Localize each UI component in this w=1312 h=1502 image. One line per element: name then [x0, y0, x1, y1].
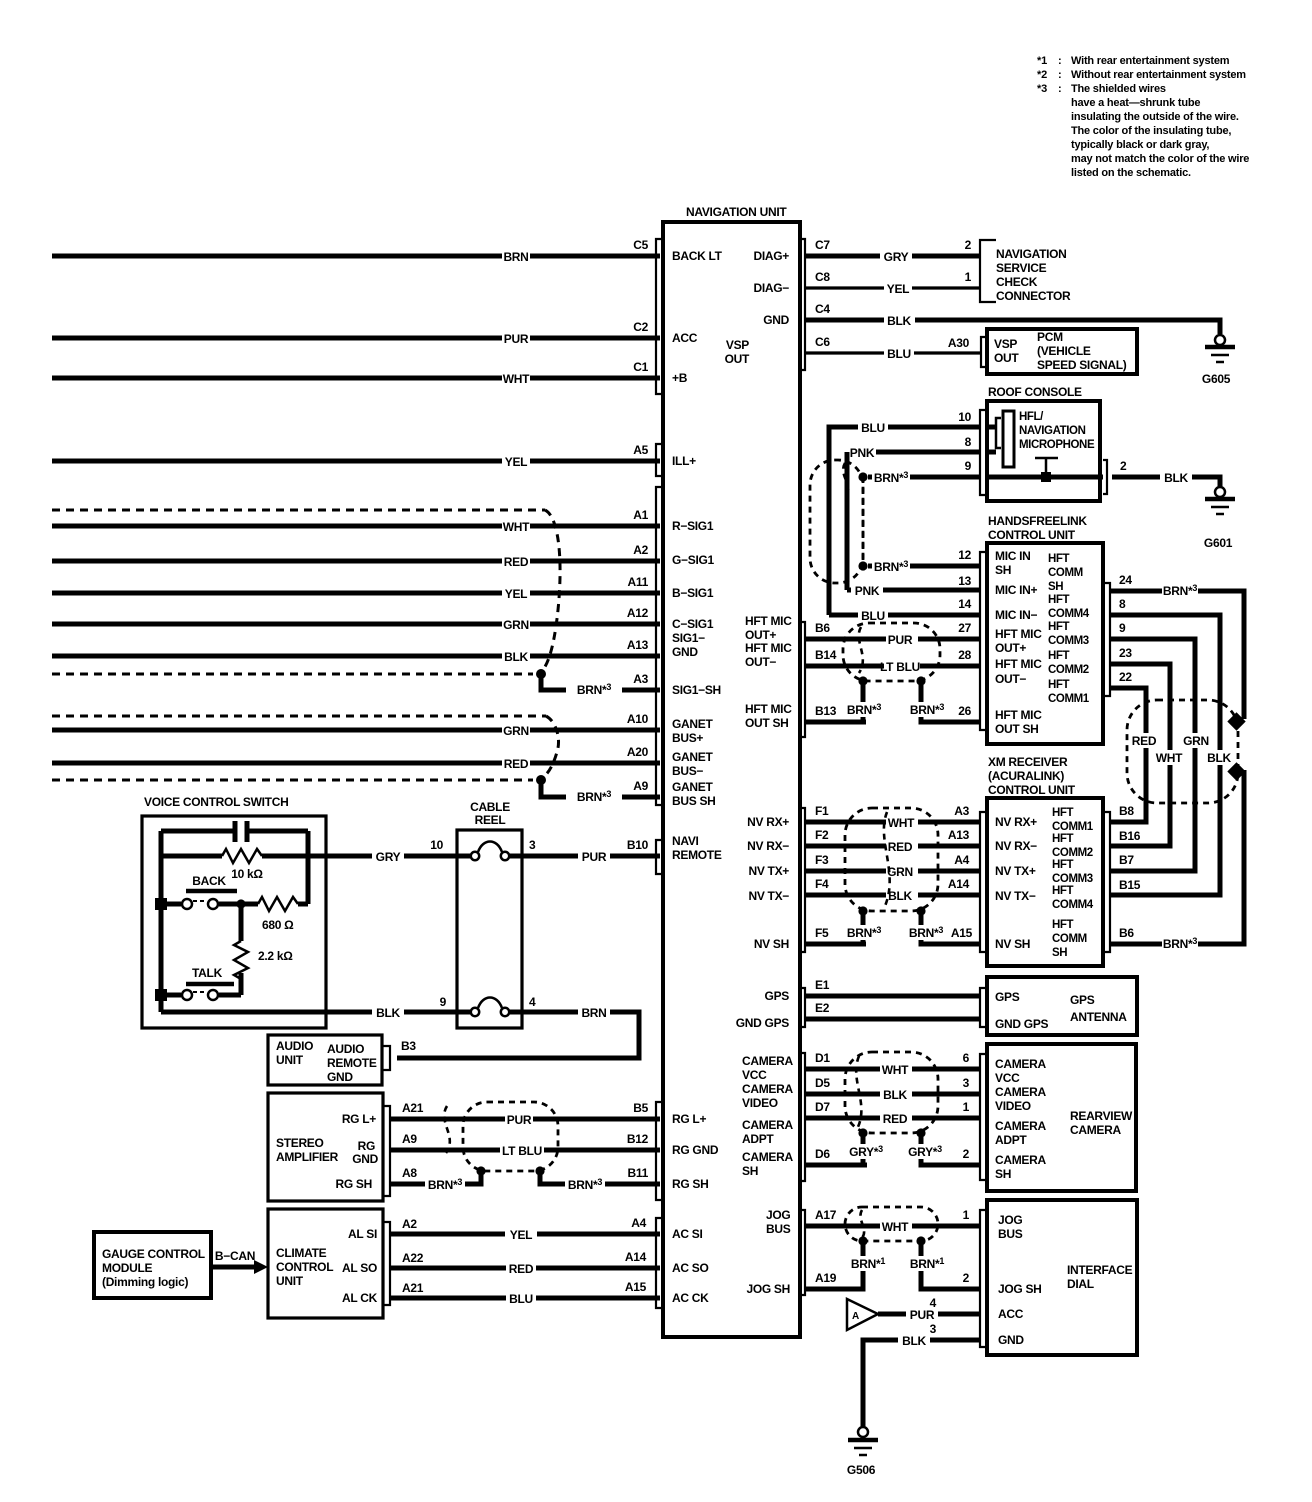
svg-text:BRN*3: BRN*3: [1163, 936, 1197, 951]
svg-text:B15: B15: [1119, 878, 1141, 892]
svg-text:E1: E1: [815, 978, 830, 992]
svg-text:BRN*3: BRN*3: [847, 702, 881, 717]
svg-text:B16: B16: [1119, 829, 1141, 843]
svg-text:CAMERA: CAMERA: [742, 1118, 793, 1132]
svg-text:A3: A3: [633, 672, 648, 686]
svg-text:A19: A19: [815, 1271, 837, 1285]
svg-text:BUS SH: BUS SH: [672, 794, 716, 808]
svg-text:PUR: PUR: [888, 633, 913, 647]
svg-text:CABLE: CABLE: [470, 800, 510, 814]
svg-text:MODULE: MODULE: [102, 1261, 152, 1275]
svg-text:F3: F3: [815, 853, 829, 867]
svg-text:1: 1: [963, 1208, 970, 1222]
svg-text:SH: SH: [742, 1164, 758, 1178]
svg-text:D6: D6: [815, 1147, 830, 1161]
svg-text:BRN*3: BRN*3: [874, 559, 908, 574]
svg-text:D5: D5: [815, 1076, 830, 1090]
svg-text:BRN*1: BRN*1: [910, 1256, 944, 1271]
svg-text:BLK: BLK: [888, 889, 912, 903]
svg-text:GND: GND: [327, 1070, 353, 1084]
svg-text:BLU: BLU: [887, 347, 911, 361]
svg-text:VIDEO: VIDEO: [995, 1099, 1031, 1113]
svg-text:AL SO: AL SO: [342, 1261, 377, 1275]
svg-text:RG: RG: [358, 1139, 375, 1153]
svg-text:BLK: BLK: [902, 1334, 926, 1348]
svg-text:B5: B5: [633, 1101, 648, 1115]
svg-text:PUR: PUR: [910, 1308, 935, 1322]
svg-text:B6: B6: [815, 621, 830, 635]
svg-text:INTERFACE: INTERFACE: [1067, 1263, 1133, 1277]
svg-text:SH: SH: [1052, 947, 1067, 959]
svg-text:GND: GND: [672, 645, 698, 659]
svg-text:B6: B6: [1119, 926, 1134, 940]
svg-text:HFT MIC: HFT MIC: [745, 614, 792, 628]
svg-text:RG SH: RG SH: [335, 1177, 372, 1191]
svg-text:RG L+: RG L+: [672, 1112, 706, 1126]
svg-text:CAMERA: CAMERA: [995, 1057, 1046, 1071]
svg-text:ACC: ACC: [672, 331, 698, 345]
svg-text:R−SIG1: R−SIG1: [672, 519, 714, 533]
svg-text:SIG1−SH: SIG1−SH: [672, 683, 721, 697]
svg-text:E2: E2: [815, 1001, 830, 1015]
svg-text:CONTROL UNIT: CONTROL UNIT: [988, 528, 1076, 542]
svg-text:BACK: BACK: [192, 874, 226, 888]
svg-text:GRN: GRN: [887, 865, 913, 879]
svg-text:BRN: BRN: [581, 1006, 606, 1020]
svg-text:OUT+: OUT+: [745, 628, 776, 642]
svg-text:NV SH: NV SH: [995, 937, 1030, 951]
svg-text:HFT MIC: HFT MIC: [745, 702, 792, 716]
svg-text:OUT SH: OUT SH: [745, 716, 789, 730]
svg-text:CAMERA: CAMERA: [995, 1119, 1046, 1133]
svg-text:GAUGE CONTROL: GAUGE CONTROL: [102, 1247, 205, 1261]
svg-text:F5: F5: [815, 926, 829, 940]
svg-text:With rear entertainment system: With rear entertainment system: [1071, 55, 1230, 67]
svg-text:10 kΩ: 10 kΩ: [231, 867, 263, 881]
svg-text:have a heat—shrunk tube: have a heat—shrunk tube: [1071, 97, 1200, 109]
svg-text:HFT MIC: HFT MIC: [995, 708, 1042, 722]
svg-text:*2: *2: [1037, 69, 1047, 81]
svg-text:HFL/: HFL/: [1019, 411, 1044, 423]
svg-text:RG SH: RG SH: [672, 1177, 709, 1191]
svg-text::: :: [1058, 83, 1061, 95]
svg-text:A: A: [852, 1311, 859, 1322]
svg-text:UNIT: UNIT: [276, 1053, 304, 1067]
svg-text:XM RECEIVER: XM RECEIVER: [988, 755, 1068, 769]
svg-text:LT BLU: LT BLU: [502, 1144, 542, 1158]
svg-text:VCC: VCC: [742, 1068, 767, 1082]
svg-text:14: 14: [958, 597, 971, 611]
svg-text:CONTROL: CONTROL: [276, 1260, 333, 1274]
svg-text:AC SI: AC SI: [672, 1227, 703, 1241]
svg-text:A12: A12: [627, 606, 649, 620]
svg-text:YEL: YEL: [505, 587, 527, 601]
svg-text:NV RX+: NV RX+: [995, 815, 1037, 829]
svg-text:A9: A9: [402, 1132, 417, 1146]
svg-text:OUT−: OUT−: [995, 672, 1026, 686]
svg-text:NV RX−: NV RX−: [747, 839, 789, 853]
svg-text:C7: C7: [815, 238, 830, 252]
svg-text:B7: B7: [1119, 853, 1134, 867]
svg-text:SPEED SIGNAL): SPEED SIGNAL): [1037, 358, 1127, 372]
svg-text:OUT+: OUT+: [995, 641, 1026, 655]
svg-text:G605: G605: [1202, 372, 1231, 386]
svg-text:10: 10: [430, 838, 443, 852]
svg-text:LT BLU: LT BLU: [880, 660, 920, 674]
svg-text:RED: RED: [1132, 734, 1157, 748]
svg-text:AMPLIFIER: AMPLIFIER: [276, 1150, 339, 1164]
svg-text:JOG: JOG: [766, 1208, 790, 1222]
svg-text:23: 23: [1119, 646, 1132, 660]
svg-text:A9: A9: [633, 779, 648, 793]
svg-text:COMM1: COMM1: [1052, 821, 1094, 833]
svg-text:A1: A1: [633, 508, 648, 522]
svg-text:RED: RED: [883, 1112, 908, 1126]
svg-text:9: 9: [1119, 621, 1126, 635]
svg-text:GPS: GPS: [765, 989, 790, 1003]
svg-text:+B: +B: [672, 371, 688, 385]
svg-text:MIC IN+: MIC IN+: [995, 583, 1038, 597]
svg-text:HFT MIC: HFT MIC: [745, 641, 792, 655]
svg-text:D7: D7: [815, 1100, 830, 1114]
svg-text:typically black or dark gray,: typically black or dark gray,: [1071, 139, 1209, 151]
svg-text:6: 6: [963, 1051, 970, 1065]
svg-text:B−SIG1: B−SIG1: [672, 586, 714, 600]
svg-text:VOICE CONTROL SWITCH: VOICE CONTROL SWITCH: [144, 795, 288, 809]
svg-text:A13: A13: [948, 828, 970, 842]
svg-text:A3: A3: [954, 804, 969, 818]
svg-text:A4: A4: [954, 853, 969, 867]
svg-text:GRY: GRY: [884, 250, 909, 264]
svg-text:RED: RED: [509, 1262, 534, 1276]
svg-text:RG GND: RG GND: [672, 1143, 719, 1157]
svg-text:The color of the insulating tu: The color of the insulating tube,: [1071, 125, 1231, 137]
svg-text:B11: B11: [628, 1166, 649, 1180]
svg-text:AUDIO: AUDIO: [276, 1039, 313, 1053]
svg-text:may not match the color of the: may not match the color of the wire: [1071, 153, 1249, 165]
svg-text:NAVIGATION UNIT: NAVIGATION UNIT: [686, 205, 787, 219]
svg-text:CAMERA: CAMERA: [742, 1150, 793, 1164]
svg-text:3: 3: [529, 838, 536, 852]
svg-text:2: 2: [1120, 459, 1127, 473]
svg-text:YEL: YEL: [505, 455, 527, 469]
svg-text:HFT: HFT: [1052, 859, 1074, 871]
svg-text:HFT: HFT: [1048, 553, 1070, 565]
svg-text:NAVI: NAVI: [672, 834, 699, 848]
svg-text:BLK: BLK: [376, 1006, 400, 1020]
svg-text:3: 3: [930, 1322, 937, 1336]
svg-text:BRN*3: BRN*3: [847, 925, 881, 940]
svg-text:PNK: PNK: [850, 446, 875, 460]
svg-text:C8: C8: [815, 270, 830, 284]
svg-text:WHT: WHT: [888, 816, 915, 830]
svg-text:ANTENNA: ANTENNA: [1070, 1010, 1127, 1024]
svg-text:G506: G506: [847, 1463, 876, 1477]
svg-text:BLU: BLU: [509, 1292, 533, 1306]
svg-text:MIC IN: MIC IN: [995, 549, 1031, 563]
svg-text:RED: RED: [888, 840, 913, 854]
svg-text:A2: A2: [402, 1217, 417, 1231]
svg-text:BUS: BUS: [766, 1222, 791, 1236]
svg-text:A14: A14: [948, 877, 970, 891]
svg-text:TALK: TALK: [192, 966, 223, 980]
svg-text:C4: C4: [815, 302, 830, 316]
svg-text:1: 1: [963, 1100, 970, 1114]
svg-text:Without rear entertainment sys: Without rear entertainment system: [1071, 69, 1246, 81]
svg-text:HFT: HFT: [1048, 621, 1070, 633]
svg-text:COMM1: COMM1: [1048, 693, 1090, 705]
svg-text:B3: B3: [401, 1039, 416, 1053]
svg-text:NV RX−: NV RX−: [995, 839, 1037, 853]
svg-text:GND: GND: [998, 1333, 1024, 1347]
svg-text:2: 2: [963, 1271, 970, 1285]
svg-text:A11: A11: [628, 575, 649, 589]
svg-text:CHECK: CHECK: [996, 275, 1038, 289]
svg-text:NAVIGATION: NAVIGATION: [1019, 425, 1086, 437]
svg-text:WHT: WHT: [503, 520, 530, 534]
svg-text::: :: [1058, 55, 1061, 67]
svg-text:(Dimming logic): (Dimming logic): [102, 1275, 188, 1289]
svg-text:YEL: YEL: [887, 282, 909, 296]
svg-text:PUR: PUR: [582, 850, 607, 864]
svg-text:REMOTE: REMOTE: [672, 848, 722, 862]
svg-text:(VEHICLE: (VEHICLE: [1037, 344, 1091, 358]
svg-text:*3: *3: [1037, 83, 1047, 95]
svg-text:VSP: VSP: [726, 338, 749, 352]
svg-text:B10: B10: [627, 838, 649, 852]
svg-text:A10: A10: [627, 712, 649, 726]
svg-text:ADPT: ADPT: [742, 1132, 774, 1146]
svg-text:D1: D1: [815, 1051, 830, 1065]
svg-text:WHT: WHT: [882, 1063, 909, 1077]
svg-text:BUS: BUS: [998, 1227, 1023, 1241]
svg-text:REEL: REEL: [475, 813, 506, 827]
svg-text:A14: A14: [625, 1250, 647, 1264]
svg-text:MIC IN−: MIC IN−: [995, 608, 1038, 622]
svg-text:B12: B12: [627, 1132, 649, 1146]
svg-text:HFT: HFT: [1048, 594, 1070, 606]
svg-text:A21: A21: [402, 1101, 424, 1115]
svg-text:B13: B13: [815, 704, 837, 718]
svg-text:CONTROL UNIT: CONTROL UNIT: [988, 783, 1076, 797]
svg-text:2: 2: [963, 1147, 970, 1161]
svg-text:BRN*3: BRN*3: [428, 1177, 462, 1192]
svg-text:B−CAN: B−CAN: [215, 1249, 255, 1263]
svg-text:CAMERA: CAMERA: [995, 1085, 1046, 1099]
svg-text:26: 26: [958, 704, 971, 718]
svg-text:A15: A15: [951, 926, 973, 940]
svg-text:COMM2: COMM2: [1052, 847, 1093, 859]
svg-text:RED: RED: [504, 555, 529, 569]
svg-text:SH: SH: [995, 1167, 1011, 1181]
svg-text:A20: A20: [627, 745, 649, 759]
svg-text:GPS: GPS: [995, 990, 1020, 1004]
svg-text:OUT SH: OUT SH: [995, 722, 1039, 736]
svg-text:BRN*3: BRN*3: [874, 470, 908, 485]
svg-text:VIDEO: VIDEO: [742, 1096, 778, 1110]
svg-text:ACC: ACC: [998, 1307, 1024, 1321]
svg-text:CONNECTOR: CONNECTOR: [996, 289, 1071, 303]
svg-text:BLU: BLU: [861, 609, 885, 623]
svg-text:COMM3: COMM3: [1052, 873, 1093, 885]
svg-text:BLK: BLK: [504, 650, 528, 664]
svg-text:AC SO: AC SO: [672, 1261, 709, 1275]
svg-text:BUS+: BUS+: [672, 731, 703, 745]
svg-text:RED: RED: [504, 757, 529, 771]
svg-text:2.2 kΩ: 2.2 kΩ: [258, 949, 293, 963]
svg-text:AL CK: AL CK: [342, 1291, 378, 1305]
svg-text:BLK: BLK: [1164, 471, 1188, 485]
svg-text:8: 8: [965, 435, 972, 449]
svg-text:A5: A5: [633, 443, 648, 457]
svg-text:A13: A13: [627, 638, 649, 652]
svg-text:ROOF CONSOLE: ROOF CONSOLE: [988, 385, 1082, 399]
svg-text:A4: A4: [631, 1216, 646, 1230]
svg-text:COMM4: COMM4: [1048, 608, 1090, 620]
svg-text:BLK: BLK: [883, 1088, 907, 1102]
svg-text:ILL+: ILL+: [672, 454, 696, 468]
svg-text:BACK LT: BACK LT: [672, 249, 723, 263]
svg-text:BRN: BRN: [503, 250, 528, 264]
svg-text:DIAG−: DIAG−: [753, 281, 789, 295]
svg-text:C1: C1: [633, 360, 648, 374]
svg-text:HFT: HFT: [1052, 807, 1074, 819]
svg-text:C6: C6: [815, 335, 830, 349]
svg-text:HFT: HFT: [1052, 833, 1074, 845]
svg-text:F1: F1: [815, 804, 829, 818]
svg-text:A17: A17: [815, 1208, 837, 1222]
svg-text:The shielded wires: The shielded wires: [1071, 83, 1166, 95]
svg-text:OUT−: OUT−: [745, 655, 776, 669]
svg-text:PNK: PNK: [855, 584, 880, 598]
svg-text:AC CK: AC CK: [672, 1291, 709, 1305]
svg-text:PUR: PUR: [507, 1113, 532, 1127]
svg-text:listed on the schematic.: listed on the schematic.: [1071, 167, 1191, 179]
svg-text:22: 22: [1119, 670, 1132, 684]
svg-text:B14: B14: [815, 648, 837, 662]
svg-text:BRN*3: BRN*3: [577, 789, 611, 804]
svg-text:BRN*3: BRN*3: [909, 925, 943, 940]
svg-text:NV TX−: NV TX−: [748, 889, 789, 903]
svg-text:COMM: COMM: [1052, 933, 1087, 945]
svg-text:(ACURALINK): (ACURALINK): [988, 769, 1064, 783]
svg-text:WHT: WHT: [503, 372, 530, 386]
svg-text:G601: G601: [1204, 536, 1233, 550]
svg-text:B8: B8: [1119, 804, 1134, 818]
svg-text:OUT: OUT: [725, 352, 750, 366]
svg-text:2: 2: [965, 238, 972, 252]
svg-text:REARVIEW: REARVIEW: [1070, 1109, 1133, 1123]
svg-text:28: 28: [958, 648, 971, 662]
svg-text:COMM2: COMM2: [1048, 664, 1089, 676]
svg-text:BLU: BLU: [861, 421, 885, 435]
svg-text:680 Ω: 680 Ω: [262, 918, 294, 932]
svg-text:CAMERA: CAMERA: [1070, 1123, 1121, 1137]
svg-text:HFT MIC: HFT MIC: [995, 657, 1042, 671]
svg-text:STEREO: STEREO: [276, 1136, 324, 1150]
svg-text:insulating the outside of the: insulating the outside of the wire.: [1071, 111, 1239, 123]
svg-text:C5: C5: [633, 238, 648, 252]
svg-text:GRY*3: GRY*3: [849, 1144, 883, 1159]
svg-text:NV RX+: NV RX+: [747, 815, 789, 829]
svg-text:PUR: PUR: [504, 332, 529, 346]
svg-text:GND: GND: [763, 313, 789, 327]
svg-text:GANET: GANET: [672, 717, 713, 731]
svg-text:GANET: GANET: [672, 750, 713, 764]
svg-text:GND GPS: GND GPS: [736, 1016, 790, 1030]
svg-text:DIAG+: DIAG+: [753, 249, 789, 263]
svg-text:ADPT: ADPT: [995, 1133, 1027, 1147]
svg-text:GRN: GRN: [503, 724, 529, 738]
svg-text:HFT: HFT: [1052, 885, 1074, 897]
svg-text:*1: *1: [1037, 55, 1047, 67]
svg-text:NV SH: NV SH: [754, 937, 789, 951]
svg-text:GRY*3: GRY*3: [908, 1144, 942, 1159]
svg-text:HANDSFREELINK: HANDSFREELINK: [988, 514, 1087, 528]
svg-text:BRN*3: BRN*3: [910, 702, 944, 717]
svg-text:A8: A8: [402, 1166, 417, 1180]
svg-text:BRN*3: BRN*3: [577, 682, 611, 697]
svg-text:JOG SH: JOG SH: [998, 1282, 1042, 1296]
svg-text:COMM3: COMM3: [1048, 635, 1089, 647]
svg-text:NV TX−: NV TX−: [995, 889, 1036, 903]
svg-text:F4: F4: [815, 877, 829, 891]
svg-text:NV TX+: NV TX+: [748, 864, 789, 878]
svg-text:GPS: GPS: [1070, 993, 1095, 1007]
svg-text:HFT MIC: HFT MIC: [995, 627, 1042, 641]
svg-text:3: 3: [963, 1076, 970, 1090]
svg-text:G−SIG1: G−SIG1: [672, 553, 715, 567]
svg-text:CAMERA: CAMERA: [995, 1153, 1046, 1167]
svg-text:NAVIGATION: NAVIGATION: [996, 247, 1067, 261]
svg-text:JOG: JOG: [998, 1213, 1022, 1227]
svg-text:4: 4: [529, 995, 536, 1009]
svg-text:A2: A2: [633, 543, 648, 557]
svg-text:BRN*3: BRN*3: [568, 1177, 602, 1192]
svg-text:C−SIG1: C−SIG1: [672, 617, 714, 631]
svg-text:27: 27: [958, 621, 971, 635]
svg-text:JOG SH: JOG SH: [746, 1282, 790, 1296]
svg-text::: :: [1058, 69, 1061, 81]
svg-text:MICROPHONE: MICROPHONE: [1019, 439, 1095, 451]
svg-text:A21: A21: [402, 1281, 424, 1295]
svg-text:8: 8: [1119, 597, 1126, 611]
svg-text:SERVICE: SERVICE: [996, 261, 1047, 275]
svg-text:C2: C2: [633, 320, 648, 334]
svg-text:GANET: GANET: [672, 780, 713, 794]
svg-text:12: 12: [958, 548, 971, 562]
svg-text:COMM4: COMM4: [1052, 899, 1094, 911]
svg-text:CLIMATE: CLIMATE: [276, 1246, 327, 1260]
svg-text:DIAL: DIAL: [1067, 1277, 1094, 1291]
svg-text:RG L+: RG L+: [342, 1112, 376, 1126]
svg-text:HFT: HFT: [1048, 650, 1070, 662]
svg-text:WHT: WHT: [1156, 751, 1183, 765]
svg-text:BRN*3: BRN*3: [1163, 583, 1197, 598]
svg-text:BLK: BLK: [1207, 751, 1231, 765]
svg-text:SIG1−: SIG1−: [672, 631, 705, 645]
svg-text:13: 13: [958, 574, 971, 588]
svg-text:VSP: VSP: [994, 337, 1017, 351]
svg-text:PCM: PCM: [1037, 330, 1063, 344]
svg-text:COMM: COMM: [1048, 567, 1083, 579]
svg-text:GRN: GRN: [503, 618, 529, 632]
svg-text:UNIT: UNIT: [276, 1274, 304, 1288]
svg-text:REMOTE: REMOTE: [327, 1056, 377, 1070]
svg-text:CAMERA: CAMERA: [742, 1082, 793, 1096]
svg-text:24: 24: [1119, 573, 1132, 587]
svg-text:BRN*1: BRN*1: [851, 1256, 885, 1271]
